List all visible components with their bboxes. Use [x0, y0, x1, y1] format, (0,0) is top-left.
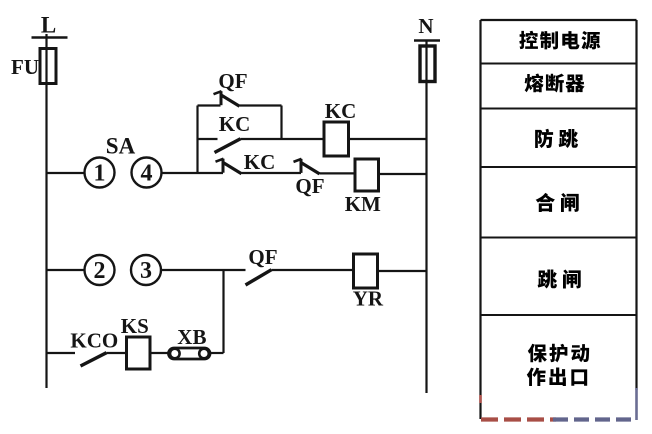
SA contact terminal 1 — [85, 158, 115, 188]
protection output contact KCO — [81, 353, 107, 366]
wire row3 left — [47, 352, 76, 354]
SA contact terminal 3 — [131, 255, 161, 285]
svg-text:1: 1 — [94, 161, 106, 187]
table cell: control power — [519, 31, 538, 49]
wire KCO to KS — [107, 352, 127, 354]
table cell: tripping — [538, 269, 557, 288]
wire middle branch left — [198, 138, 218, 140]
svg-text:YR: YR — [353, 286, 384, 310]
svg-text:KM: KM — [345, 192, 381, 216]
relay contact KC (anti-pump lower) — [215, 139, 241, 153]
breaker aux contact QF (tripping) — [246, 270, 272, 285]
svg-text:KCO: KCO — [70, 328, 118, 352]
svg-text:KS: KS — [121, 314, 149, 338]
svg-text:KC: KC — [325, 99, 357, 123]
svg-text:SA: SA — [106, 134, 136, 159]
wire to YR coil — [272, 269, 354, 271]
wire KC coil to N — [349, 138, 427, 140]
svg-text:QF: QF — [248, 245, 277, 269]
breaker aux contact QF (closing) — [294, 159, 320, 174]
contactor coil KM — [355, 159, 379, 191]
terminal N tick — [414, 39, 440, 41]
svg-text:QF: QF — [218, 69, 247, 93]
table cell: closing — [536, 193, 555, 212]
signal relay coil KS — [127, 337, 151, 369]
connecting link XB — [169, 348, 211, 359]
wire YR coil to N — [378, 270, 427, 272]
relay coil KC — [324, 122, 349, 156]
table cell: fuse — [525, 74, 544, 93]
svg-text:4: 4 — [141, 161, 153, 187]
wire branch left vertical — [196, 106, 198, 174]
wire top branch left — [198, 104, 221, 106]
SA contact terminal 2 — [85, 255, 115, 285]
table cell: protection action outlet line1 — [528, 344, 547, 362]
wire junction down to protection branch — [222, 270, 224, 353]
svg-text:XB: XB — [177, 325, 206, 349]
svg-text:L: L — [41, 13, 56, 38]
svg-text:FU: FU — [11, 55, 39, 79]
breaker aux contact QF (anti-pump upper) — [214, 91, 240, 106]
svg-text:KC: KC — [219, 112, 251, 136]
trip coil YR — [354, 254, 378, 288]
table bottom dashed border (scan artifact colors) — [481, 417, 556, 421]
relay contact KC on closing path — [216, 159, 242, 174]
fuse FU — [40, 49, 56, 84]
svg-text:QF: QF — [295, 174, 324, 198]
wire branch right vertical — [280, 106, 282, 140]
wire row1 middle — [242, 172, 302, 174]
fuse on N line — [420, 46, 435, 82]
wire top branch right — [240, 104, 282, 106]
wire row1 to KC contact — [162, 172, 224, 174]
wire XB to junction — [210, 352, 224, 354]
wire KM coil to N — [379, 173, 427, 175]
wire middle branch to KC coil — [241, 138, 325, 140]
svg-text:KC: KC — [244, 150, 276, 174]
wire row1 left — [47, 172, 85, 174]
terminal L tick — [32, 36, 68, 38]
wire KS to XB — [150, 352, 169, 354]
table row separators — [481, 64, 637, 316]
wire right supply vertical — [425, 40, 427, 393]
table cell: anti-pumping — [535, 129, 553, 148]
wire row2 to QF contact — [161, 269, 246, 271]
SA contact terminal 4 — [132, 158, 162, 188]
wire left supply vertical — [45, 34, 47, 388]
svg-text:2: 2 — [94, 258, 106, 284]
wire to KM coil — [320, 172, 356, 174]
table cell: protection action outlet line2 — [527, 368, 546, 386]
function table frame — [481, 20, 637, 419]
svg-text:N: N — [418, 14, 433, 38]
wire row2 left — [47, 269, 85, 271]
svg-text:3: 3 — [140, 258, 152, 284]
